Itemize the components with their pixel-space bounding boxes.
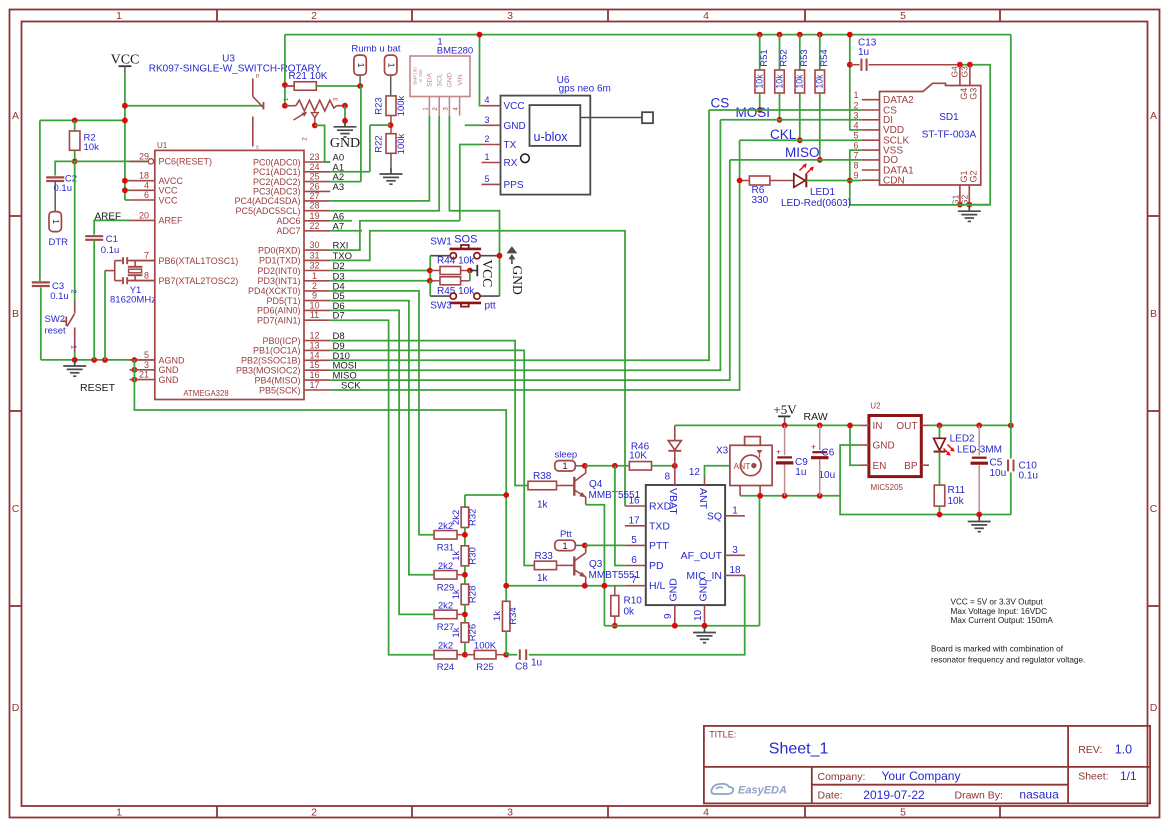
- resistor R52: [775, 70, 785, 93]
- U2 pin OUT: [896, 421, 929, 432]
- junction: [503, 652, 509, 658]
- svg-text:ATMEGA328: ATMEGA328: [183, 389, 228, 398]
- wire: [93, 240, 95, 360]
- svg-text:p: p: [256, 73, 259, 79]
- wire U1 GND loop to ladder: [134, 360, 506, 601]
- resistor R34 body: [502, 601, 510, 631]
- svg-text:B: B: [1150, 308, 1157, 320]
- svg-text:ST-TF-003A: ST-TF-003A: [922, 130, 977, 141]
- svg-text:0.1u: 0.1u: [101, 245, 120, 256]
- svg-text:TXD: TXD: [649, 520, 670, 532]
- junction: [817, 157, 823, 163]
- svg-text:7: 7: [853, 150, 858, 160]
- svg-text:PD3(INT1): PD3(INT1): [257, 276, 300, 286]
- svg-text:Max Current Output: 150mA: Max Current Output: 150mA: [951, 616, 1054, 625]
- svg-text:or 280: or 280: [418, 69, 423, 82]
- svg-text:7: 7: [144, 251, 149, 261]
- resistor R33 body: [534, 561, 556, 570]
- svg-text:3: 3: [484, 115, 489, 125]
- svg-text:PB0(ICP): PB0(ICP): [262, 336, 300, 346]
- IC U1 ATMEGA328 body: [155, 150, 304, 399]
- svg-text:AREF: AREF: [159, 216, 184, 226]
- junction: [357, 83, 363, 89]
- svg-text:R52: R52: [779, 49, 790, 66]
- GPS antenna stub: [580, 117, 642, 119]
- junction: [462, 612, 468, 618]
- wire: [819, 35, 821, 70]
- svg-text:VCC: VCC: [111, 53, 140, 68]
- svg-text:C8: C8: [515, 662, 528, 673]
- wire left vertical: [39, 120, 41, 281]
- wire VCC column: [124, 73, 126, 201]
- svg-text:9: 9: [312, 291, 317, 301]
- resistor R51: [755, 70, 765, 93]
- ground: [958, 205, 981, 221]
- wire R2 top rail: [40, 119, 125, 121]
- junction: [312, 123, 318, 129]
- pushbutton SW3: [430, 293, 499, 307]
- svg-text:29: 29: [139, 151, 149, 161]
- SD1 pin 9 CDN: [853, 171, 904, 187]
- U1 pin 8 PB7(XTAL2TOSC2): [130, 271, 239, 286]
- svg-text:1u: 1u: [858, 47, 869, 58]
- ground: [380, 168, 403, 184]
- svg-text:GND: GND: [447, 72, 454, 87]
- EasyEDA logo: [711, 784, 787, 797]
- junction: [602, 583, 608, 589]
- resistor R10: [614, 586, 616, 596]
- resistor R21 body: [294, 82, 316, 91]
- wire TXO route (PD1 to radio RXD): [330, 231, 625, 506]
- wire crystal gnd column: [104, 271, 106, 360]
- junction: [427, 278, 433, 284]
- junction: [782, 493, 788, 499]
- wire: [464, 566, 466, 584]
- svg-text:1: 1: [116, 807, 122, 819]
- svg-text:VIN: VIN: [457, 74, 464, 85]
- svg-text:2: 2: [312, 281, 317, 291]
- junction: [462, 532, 468, 538]
- U1 pin 5 AGND: [130, 350, 186, 365]
- net flag Ptt: [555, 540, 576, 550]
- wire AREF: [94, 220, 129, 234]
- svg-text:10k: 10k: [795, 74, 805, 89]
- U1 pin 28 PC5(ADC5SCL): [235, 201, 330, 216]
- X3 shell pins to gnd line: [739, 486, 741, 496]
- wire A1: [330, 171, 370, 173]
- U1 pin 4 VCC: [130, 180, 179, 195]
- resistor R11 body: [934, 485, 945, 506]
- svg-text:1.0: 1.0: [1115, 742, 1132, 756]
- svg-text:nasaua: nasaua: [1019, 787, 1059, 801]
- junction: [132, 377, 138, 383]
- wire MOSI to SD pin3: [720, 119, 861, 121]
- junction: [477, 32, 483, 38]
- svg-text:PC5(ADC5SCL): PC5(ADC5SCL): [235, 206, 300, 216]
- svg-text:PB1(OC1A): PB1(OC1A): [253, 346, 301, 356]
- svg-text:1: 1: [562, 461, 567, 472]
- junction: [122, 103, 128, 109]
- svg-text:100k: 100k: [396, 95, 407, 116]
- svg-text:EN: EN: [873, 461, 887, 472]
- wire CKL to SD pin5: [740, 139, 862, 141]
- capacitor C9: [784, 425, 786, 455]
- junction: [847, 178, 853, 184]
- svg-text:27: 27: [309, 191, 319, 201]
- svg-text:2k2: 2k2: [438, 561, 453, 572]
- U1 pin 7 PB6(XTAL1TOSC1): [130, 251, 239, 266]
- svg-text:1: 1: [562, 541, 567, 552]
- svg-text:PPS: PPS: [504, 180, 524, 191]
- svg-text:10: 10: [309, 300, 319, 310]
- junction: [612, 623, 618, 629]
- svg-text:14: 14: [309, 350, 319, 360]
- svg-text:PB4(MISO): PB4(MISO): [254, 375, 300, 385]
- svg-text:CDN: CDN: [883, 176, 905, 187]
- junction: [847, 62, 853, 68]
- U1 pin 20 AREF: [130, 210, 184, 225]
- wire: [759, 93, 761, 110]
- junction: [582, 583, 588, 589]
- junction: [757, 32, 763, 38]
- svg-text:R31: R31: [437, 542, 454, 553]
- svg-text:Company:: Company:: [818, 771, 866, 783]
- svg-text:G1: G1: [959, 170, 969, 182]
- wire C13 to SD G pins: [960, 65, 990, 205]
- wire A7 stub: [330, 230, 362, 232]
- junction: [503, 583, 509, 589]
- wire: [464, 605, 466, 623]
- U2 pin GND: [860, 441, 895, 452]
- wire BME GND to SOS ground: [449, 116, 499, 296]
- svg-text:R54: R54: [819, 49, 830, 66]
- resistor R22: [386, 134, 396, 154]
- svg-text:4: 4: [853, 120, 858, 130]
- svg-text:R34: R34: [508, 607, 519, 624]
- svg-text:30: 30: [309, 240, 319, 250]
- wire D3 to R45: [330, 280, 430, 282]
- svg-text:18: 18: [139, 171, 149, 181]
- svg-text:ANT: ANT: [697, 488, 709, 510]
- svg-text:28: 28: [309, 201, 319, 211]
- svg-text:6: 6: [631, 555, 637, 566]
- U1 pin 31 PD1(TXD): [259, 250, 330, 265]
- svg-text:CS: CS: [711, 96, 730, 111]
- svg-text:VCC: VCC: [159, 195, 179, 205]
- GPS module U6 body: [501, 96, 591, 195]
- svg-text:R30: R30: [467, 547, 478, 564]
- U1 pin 29 PC6(RESET): [130, 151, 213, 166]
- svg-text:A3: A3: [333, 182, 345, 193]
- svg-text:ANT: ANT: [734, 461, 751, 471]
- resistor R27: [434, 610, 457, 619]
- wire: [779, 35, 781, 70]
- svg-text:R27: R27: [437, 622, 454, 633]
- wire BME SDA to pin27: [330, 116, 429, 201]
- wire U2 GND to gnd line: [840, 445, 860, 496]
- SD1 pin 1 DATA2: [853, 90, 914, 106]
- svg-text:10k: 10k: [84, 142, 100, 153]
- svg-text:RESET: RESET: [80, 382, 116, 394]
- wire: [369, 125, 371, 172]
- svg-text:SW2: SW2: [45, 314, 66, 325]
- resistor R26: [461, 623, 469, 643]
- wire radio gnd rail up to X3 gnd line: [759, 496, 761, 626]
- svg-text:PB7(XTAL2TOSC2): PB7(XTAL2TOSC2): [159, 276, 239, 286]
- svg-text:1: 1: [356, 63, 366, 68]
- svg-text:3: 3: [144, 360, 149, 370]
- junction: [91, 357, 97, 363]
- junction: [847, 423, 853, 429]
- U1 pin 12 PB0(ICP): [262, 331, 330, 346]
- svg-text:U1: U1: [157, 141, 168, 150]
- wire: [74, 120, 76, 131]
- svg-text:ptt: ptt: [485, 301, 496, 312]
- svg-text:LED-Red(0603): LED-Red(0603): [781, 198, 851, 209]
- ground port at SW1: [506, 246, 517, 253]
- svg-text:2k2: 2k2: [438, 521, 453, 532]
- svg-text:R33: R33: [535, 551, 554, 562]
- U6 pin 2 TX: [482, 134, 517, 151]
- SD1 pin 7 DO: [853, 150, 898, 166]
- SD1 pin 6 VSS: [853, 141, 903, 157]
- svg-text:81620MHz: 81620MHz: [110, 295, 156, 306]
- svg-text:26: 26: [309, 181, 319, 191]
- resistor R46 body: [629, 462, 651, 471]
- wire: [1010, 473, 1012, 515]
- junction: [582, 543, 588, 549]
- svg-text:VBAT: VBAT: [667, 488, 679, 515]
- svg-text:R26: R26: [467, 624, 478, 641]
- svg-text:GND: GND: [504, 121, 526, 132]
- wire: [390, 116, 392, 134]
- wire divider to A1: [370, 124, 391, 126]
- wire Q4 emitter to gnd rail: [586, 505, 605, 626]
- resistor R38 body: [528, 481, 557, 490]
- wire D4 to R31: [330, 291, 434, 535]
- connector Rumb: [354, 55, 366, 75]
- wire: [799, 35, 801, 70]
- U1 pin 19 ADC6: [276, 211, 330, 226]
- junction: [342, 118, 348, 124]
- radio pin 9 GND: [663, 578, 680, 626]
- svg-text:LED1: LED1: [810, 187, 835, 198]
- U1 pin 15 PB3(MOSIOC2): [236, 360, 330, 375]
- svg-text:PC1(ADC1): PC1(ADC1): [253, 167, 301, 177]
- wire C10 column: [1010, 425, 1012, 458]
- svg-text:R44 10k: R44 10k: [437, 256, 475, 267]
- svg-text:A: A: [12, 110, 19, 122]
- svg-text:OUT: OUT: [896, 421, 917, 432]
- svg-text:GND: GND: [697, 578, 709, 602]
- svg-text:SW3: SW3: [430, 301, 452, 312]
- radio pin 7 H/L: [625, 575, 666, 592]
- svg-text:Ptt: Ptt: [560, 529, 572, 540]
- svg-text:1: 1: [484, 152, 489, 162]
- junction: [282, 103, 288, 109]
- wire RESET to PC6: [75, 160, 148, 162]
- U6 pin 4 VCC: [482, 95, 525, 112]
- svg-text:31: 31: [309, 250, 319, 260]
- svg-text:GND: GND: [510, 266, 525, 295]
- svg-text:R53: R53: [799, 49, 810, 66]
- svg-text:1: 1: [387, 63, 397, 68]
- radio pin 10 GND: [693, 578, 709, 626]
- wire VCC rail to GPS VCC: [480, 35, 482, 106]
- U1 pin 13 PB1(OC1A): [253, 340, 330, 355]
- connector u bat: [385, 55, 397, 75]
- svg-text:23: 23: [309, 152, 319, 162]
- wire MOSI to SD DI: [330, 120, 720, 370]
- svg-text:SD1: SD1: [939, 112, 959, 123]
- svg-text:PD7(AIN1): PD7(AIN1): [257, 316, 301, 326]
- svg-text:9: 9: [663, 613, 674, 619]
- wire: [978, 465, 980, 515]
- U1 pin 1 PD3(INT1): [257, 271, 330, 286]
- resistor R10 body: [611, 596, 619, 617]
- radio module body: [646, 485, 725, 605]
- svg-text:Sheet_1: Sheet_1: [769, 741, 829, 758]
- junction: [817, 493, 823, 499]
- svg-text:R28: R28: [467, 586, 478, 603]
- svg-text:100K: 100K: [474, 641, 497, 652]
- junction: [797, 32, 803, 38]
- junction: [672, 463, 678, 469]
- resistor R24: [434, 650, 457, 659]
- SD1 pin 2 CS: [853, 101, 897, 117]
- title block texts: [709, 730, 1137, 802]
- wire diode to +5V rail: [675, 424, 860, 426]
- svg-text:R24: R24: [437, 662, 454, 673]
- svg-text:ADC7: ADC7: [276, 226, 300, 236]
- svg-text:10: 10: [693, 609, 704, 621]
- capacitor C8: [506, 654, 517, 656]
- regulator U2 MIC5205 body: [869, 416, 921, 477]
- junction: [122, 118, 128, 124]
- svg-text:SDA: SDA: [427, 73, 434, 87]
- svg-text:PD2(INT0): PD2(INT0): [257, 266, 300, 276]
- svg-text:2019-07-22: 2019-07-22: [863, 788, 925, 802]
- wire OUT rail: [929, 424, 1011, 426]
- svg-text:+5V: +5V: [773, 402, 797, 417]
- svg-text:B: B: [12, 308, 19, 320]
- U1 pin 16 PB4(MISO): [254, 370, 330, 385]
- svg-text:R38: R38: [533, 471, 552, 482]
- junction: [132, 357, 138, 363]
- svg-text:gps neo 6m: gps neo 6m: [559, 84, 611, 95]
- svg-text:TX: TX: [504, 140, 517, 151]
- wire SW1 left to D2 node: [429, 256, 431, 281]
- svg-text:PD: PD: [649, 560, 664, 572]
- wire R21 right: [316, 85, 360, 87]
- svg-text:22: 22: [309, 221, 319, 231]
- svg-text:32: 32: [309, 261, 319, 271]
- capacitor C2: [46, 176, 64, 178]
- svg-text:6: 6: [144, 190, 149, 200]
- svg-text:11: 11: [310, 310, 319, 320]
- junction: [102, 357, 108, 363]
- svg-text:12: 12: [309, 331, 319, 341]
- capacitor C1: [85, 235, 103, 237]
- wire LED1 cathode to CDN node: [806, 180, 850, 182]
- svg-text:17: 17: [309, 380, 319, 390]
- svg-text:GND: GND: [668, 578, 680, 602]
- junction: [976, 423, 982, 429]
- svg-text:PB5(SCK): PB5(SCK): [259, 385, 301, 395]
- svg-text:MISO: MISO: [785, 145, 820, 160]
- svg-text:10k: 10k: [948, 496, 965, 507]
- svg-text:R22: R22: [374, 135, 385, 152]
- radio pin 5 PTT: [625, 535, 670, 552]
- svg-text:1: 1: [51, 219, 61, 224]
- junction: [467, 268, 473, 274]
- ground: [968, 516, 991, 532]
- wire SCK to SD SCLK: [330, 140, 739, 390]
- svg-text:PD6(AIN0): PD6(AIN0): [257, 306, 301, 316]
- wire: [869, 64, 960, 66]
- switch SW2: [63, 302, 75, 353]
- U1 pin 26 PC3(ADC3): [253, 181, 330, 196]
- wire: [779, 93, 781, 120]
- svg-text:PC3(ADC3): PC3(ADC3): [253, 187, 301, 197]
- U1 pin 10 PD6(AIN0): [257, 300, 330, 315]
- wire EN tie to IN: [850, 425, 860, 465]
- radio pin 18 MIC_IN: [686, 565, 744, 582]
- junction: [72, 159, 78, 165]
- svg-text:8: 8: [664, 472, 670, 483]
- svg-text:0.1u: 0.1u: [1019, 471, 1038, 482]
- svg-text:9: 9: [853, 171, 858, 181]
- svg-text:1: 1: [70, 345, 79, 349]
- svg-text:15: 15: [309, 360, 319, 370]
- svg-text:R25: R25: [476, 662, 493, 673]
- resistor R30: [461, 546, 469, 566]
- svg-text:21: 21: [139, 370, 149, 380]
- svg-text:VCC: VCC: [159, 186, 179, 196]
- svg-text:MOSI: MOSI: [736, 105, 771, 120]
- radio pin 12 ANT: [689, 467, 709, 510]
- wire: [125, 199, 131, 201]
- U1 pin 3 GND: [130, 360, 180, 375]
- svg-text:0.1u: 0.1u: [54, 183, 73, 194]
- ground: [693, 627, 716, 643]
- svg-text:G2: G2: [968, 170, 978, 182]
- svg-text:AVCC: AVCC: [159, 176, 184, 186]
- wire D2 to R44: [330, 270, 430, 272]
- svg-text:D: D: [12, 702, 20, 714]
- wire VCC to rotary switch: [125, 105, 264, 107]
- svg-text:Date:: Date:: [818, 790, 843, 802]
- wire R44-R45 right join: [469, 271, 471, 281]
- power flag +5V: [773, 402, 797, 425]
- wire wiper to A0: [315, 125, 330, 162]
- U2 pin BP: [904, 461, 929, 472]
- U1 pin 2 PD4(XCKT0): [248, 281, 330, 296]
- svg-text:1: 1: [853, 90, 858, 100]
- junction: [937, 512, 943, 518]
- power flag VCC: [111, 53, 140, 73]
- svg-text:R29: R29: [437, 582, 454, 593]
- wire LED2 to R11: [939, 452, 941, 486]
- U6 pin 5 PPS: [482, 174, 524, 191]
- U1 pin 24 PC1(ADC1): [253, 162, 330, 177]
- junction: [817, 32, 823, 38]
- svg-text:0k: 0k: [624, 607, 636, 618]
- svg-text:12: 12: [689, 467, 701, 478]
- capacitor C3: [32, 281, 50, 283]
- svg-text:C: C: [1150, 503, 1158, 515]
- wire: [337, 105, 345, 107]
